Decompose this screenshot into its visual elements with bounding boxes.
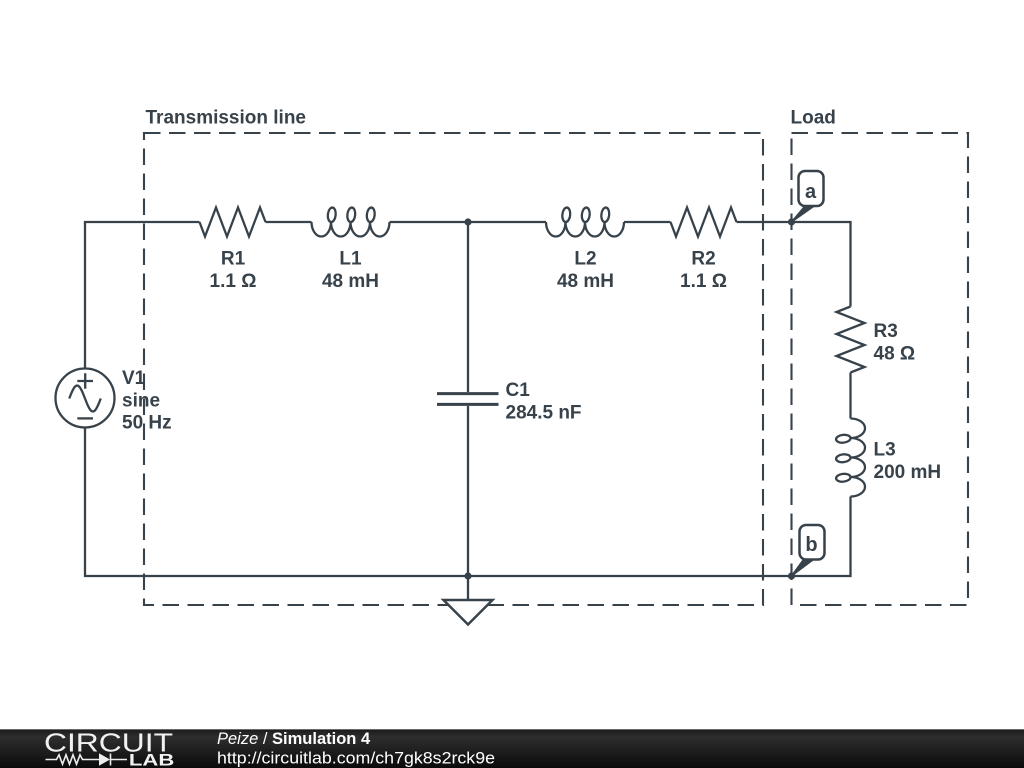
svg-text:Transmission line: Transmission line [146,108,307,129]
inductor L1 [312,207,390,236]
svg-text:L3: L3 [874,440,896,461]
svg-text:284.5 nF: 284.5 nF [506,403,582,424]
inductor L3 [836,419,865,497]
svg-text:http://circuitlab.com/ch7gk8s2: http://circuitlab.com/ch7gk8s2rck9e [217,749,495,768]
node junction at C1 top [464,218,471,225]
load group box [792,133,969,605]
svg-text:R1: R1 [221,249,246,270]
svg-text:200 mH: 200 mH [874,462,942,483]
resistor R3 [837,307,865,373]
svg-text:L2: L2 [574,249,596,270]
svg-text:C1: C1 [506,380,531,401]
svg-text:1.1 Ω: 1.1 Ω [210,271,257,292]
node junction at C1 bottom [464,572,471,579]
svg-text:50 Hz: 50 Hz [122,413,172,434]
svg-text:1.1 Ω: 1.1 Ω [680,271,727,292]
svg-text:LAB: LAB [129,751,174,768]
wire bottom rail with both bottom corners [85,428,851,577]
node b flag [788,525,825,580]
CircuitLab logo resistor-diode glyph [46,754,128,766]
svg-text:R2: R2 [691,249,715,270]
svg-text:V1: V1 [122,368,146,389]
capacitor C1 plates [437,394,499,405]
resistor R2 [671,208,737,237]
svg-text:b: b [805,534,817,556]
wire top rail with top-left corner [85,222,671,369]
svg-text:48 mH: 48 mH [322,271,379,292]
resistor R1 [200,208,266,237]
transmission line group box [144,133,763,605]
svg-text:Load: Load [791,108,836,129]
svg-text:a: a [805,181,817,203]
wire capacitor stem [467,222,469,576]
ground [467,576,469,599]
svg-text:Peize / Simulation 4: Peize / Simulation 4 [217,730,371,748]
voltage source V1 [56,369,115,428]
svg-text:L1: L1 [339,249,362,270]
svg-text:48 Ω: 48 Ω [874,344,916,365]
wire right branch between R3 and L3 [849,373,851,419]
svg-text:48 mH: 48 mH [557,271,614,292]
svg-text:R3: R3 [874,321,898,342]
wire node a to right branch with top-right corner [737,222,851,307]
inductor L2 [546,207,624,236]
svg-text:sine: sine [122,391,160,412]
node a flag [788,171,824,226]
